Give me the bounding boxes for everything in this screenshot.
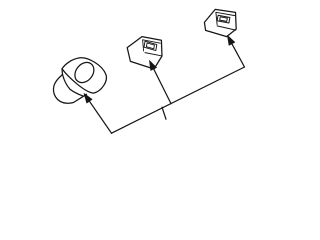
wire: left branch to grommet (89, 101, 111, 133)
arrowhead to grommet (84, 93, 92, 103)
wire: main leader line A-B (112, 67, 245, 133)
box inner chamfer left edge (143, 40, 144, 51)
grommet step curve (63, 75, 84, 97)
grommet upper wall stub (61, 69, 64, 75)
grommet (left part) (54, 58, 107, 103)
recess outer rectangle (144, 41, 157, 50)
middle retainer clip (127, 37, 162, 69)
grommet top rim (62, 58, 106, 93)
box silhouette (127, 37, 162, 69)
recess inner rectangle (146, 43, 154, 49)
box inner chamfer top edge (143, 40, 161, 43)
right retainer clip (204, 9, 236, 36)
arrowhead to middle box (149, 61, 156, 71)
box face bottom edge (145, 53, 161, 56)
grommet hole (71, 59, 98, 87)
wire: right branch (232, 44, 245, 67)
arrowhead to right box (227, 35, 234, 45)
junction tick on main line (162, 107, 166, 119)
grommet flange silhouette (54, 75, 87, 104)
wire: middle branch (154, 69, 171, 104)
